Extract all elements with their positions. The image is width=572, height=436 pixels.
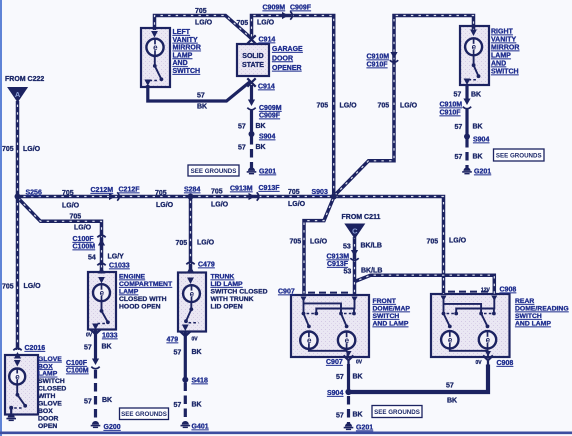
svg-text:FROM C222: FROM C222	[5, 76, 44, 83]
svg-text:BK: BK	[471, 92, 481, 99]
component box right vanity mirror lamp and switch	[460, 26, 489, 85]
lamp left vanity	[146, 39, 163, 56]
svg-text:57: 57	[84, 399, 92, 406]
svg-text:BK: BK	[102, 344, 112, 351]
svg-text:DOOR: DOOR	[38, 415, 58, 422]
svg-text:C100F: C100F	[73, 236, 95, 243]
wire rear dome ground 57 BK to S904	[350, 365, 488, 393]
connector C909M/C909F inline	[282, 11, 292, 19]
arrow into engine lamp	[98, 277, 105, 284]
ground G201 right	[462, 167, 472, 173]
svg-text:ENGINE: ENGINE	[119, 274, 146, 281]
svg-text:BK: BK	[256, 144, 266, 151]
splice S903	[331, 194, 337, 200]
lamp right vanity	[465, 38, 482, 55]
wire rear dome right stub	[493, 309, 495, 314]
svg-text:BK/LB: BK/LB	[361, 268, 382, 275]
svg-text:SEE GROUNDS: SEE GROUNDS	[121, 411, 167, 418]
svg-text:SWITCH: SWITCH	[38, 378, 65, 385]
wire right S904 to G201 dashed	[465, 139, 468, 168]
svg-text:C910F: C910F	[367, 62, 389, 69]
svg-text:C909F: C909F	[290, 5, 312, 12]
svg-text:C913F: C913F	[327, 261, 349, 268]
svg-text:CLOSED WITH: CLOSED WITH	[119, 296, 167, 303]
svg-text:LG/O: LG/O	[74, 225, 92, 232]
svg-text:479: 479	[167, 337, 179, 344]
svg-text:C212F: C212F	[119, 187, 141, 194]
svg-text:G201: G201	[259, 169, 276, 176]
svg-text:e: e	[100, 289, 105, 298]
switch front dome right	[339, 312, 352, 329]
lamp front dome right	[338, 332, 355, 349]
contact rear dome B	[454, 312, 458, 316]
svg-text:SOLID: SOLID	[242, 53, 263, 60]
arrow exit left vanity	[144, 80, 151, 87]
svg-text:FROM C211: FROM C211	[342, 214, 381, 221]
ground G201 left	[247, 167, 257, 173]
svg-text:705: 705	[2, 284, 14, 291]
component box front dome/map switch and lamp	[291, 295, 369, 357]
arrow exit rear dome	[485, 351, 491, 357]
svg-text:OPENER: OPENER	[272, 65, 302, 72]
svg-text:e: e	[153, 43, 158, 52]
wire lamp to switch trunk	[190, 302, 192, 308]
svg-text:RIGHT: RIGHT	[491, 29, 514, 36]
switch rear dome left	[442, 312, 455, 329]
svg-text:BK: BK	[197, 104, 207, 111]
svg-text:57: 57	[197, 93, 205, 100]
component box solid state garage door opener	[237, 44, 269, 76]
svg-text:SWITCH: SWITCH	[173, 68, 201, 75]
svg-text:e: e	[15, 372, 20, 381]
svg-text:54: 54	[88, 255, 96, 262]
svg-text:705: 705	[70, 214, 82, 221]
contact rear dome D	[492, 312, 496, 316]
wire from C211 drop 53 BK/LB	[353, 237, 357, 295]
svg-text:BOX: BOX	[38, 363, 53, 370]
wire front dome crossbar upper	[304, 303, 342, 313]
svg-text:BK: BK	[353, 374, 363, 381]
svg-text:OPEN: OPEN	[38, 423, 57, 430]
wire S903 drop to front dome 705 LG/O	[304, 197, 334, 295]
svg-text:705: 705	[290, 239, 302, 246]
svg-text:AND LAMP: AND LAMP	[373, 321, 409, 328]
connector C100F/C100M on engine ground	[91, 359, 99, 369]
svg-text:705: 705	[195, 8, 207, 15]
svg-text:53: 53	[344, 269, 352, 276]
component box glove box lamp	[5, 355, 38, 415]
connector C2016	[13, 348, 21, 358]
svg-text:C212M: C212M	[91, 187, 114, 194]
svg-text:S903: S903	[312, 189, 328, 196]
svg-text:12V: 12V	[481, 288, 491, 294]
svg-text:LG/O: LG/O	[211, 202, 229, 209]
svg-text:C909M: C909M	[259, 105, 282, 112]
svg-text:1033: 1033	[102, 333, 118, 340]
wire front dome left branch	[303, 300, 305, 314]
svg-text:G201: G201	[356, 425, 373, 432]
connector C914 top	[247, 35, 255, 43]
splice S418	[182, 377, 188, 383]
svg-text:C909M: C909M	[263, 5, 286, 12]
svg-text:LAMP: LAMP	[119, 289, 139, 296]
svg-text:WITH TRUNK: WITH TRUNK	[211, 296, 254, 303]
wire C914 to C909 connector 57 BK	[250, 85, 253, 102]
dashed box top rear dome	[448, 291, 490, 293]
connector C910M/C910F on right vanity ground	[463, 99, 471, 109]
wire front dome right stub	[353, 309, 355, 314]
svg-text:705: 705	[2, 146, 14, 153]
lamp trunk lid	[183, 285, 200, 302]
svg-text:FRONT: FRONT	[373, 298, 397, 305]
svg-text:57: 57	[174, 350, 182, 357]
svg-text:LG/O: LG/O	[400, 103, 418, 110]
svg-text:BK: BK	[473, 124, 483, 131]
arrow into rear dome right	[491, 296, 497, 302]
svg-text:C910M: C910M	[440, 102, 463, 109]
svg-text:705: 705	[211, 189, 223, 196]
svg-text:SEE GROUNDS: SEE GROUNDS	[496, 152, 542, 159]
wire rear dome exit	[487, 351, 489, 356]
svg-text:LAMP: LAMP	[38, 371, 58, 378]
svg-text:57: 57	[336, 413, 344, 420]
component box trunk lid lamp	[178, 273, 206, 332]
wire lamp to switch glove box	[16, 385, 18, 394]
svg-text:C907: C907	[326, 359, 343, 366]
wire 53 BK/LB branch to rear dome	[355, 275, 495, 294]
svg-text:C2016: C2016	[25, 345, 46, 352]
ground G200	[91, 421, 101, 427]
svg-text:C908: C908	[500, 287, 517, 294]
see grounds box lower right	[372, 406, 422, 418]
wire main bus S256 to rear dome 705 LG/O	[18, 197, 444, 295]
switch engine hood	[98, 309, 110, 324]
switch rear dome right	[479, 312, 492, 329]
arrow exit trunk	[182, 325, 189, 332]
connector C479	[186, 262, 194, 272]
svg-text:BK: BK	[353, 412, 363, 419]
svg-text:e: e	[448, 336, 453, 345]
wire C910 connector to S904 57 BK	[465, 110, 468, 135]
ground below glove box	[6, 414, 16, 420]
wire S284 drop to trunk lamp 705 LG/O	[189, 197, 193, 273]
svg-text:SWITCH: SWITCH	[515, 313, 542, 320]
svg-text:53: 53	[343, 244, 351, 251]
svg-text:BK/LB: BK/LB	[361, 243, 382, 250]
arrow into trunk lamp	[187, 278, 194, 285]
svg-text:0V: 0V	[356, 360, 363, 366]
svg-text:SWITCH: SWITCH	[373, 313, 400, 320]
wire S903 to right vanity feed 705 LG/O	[335, 16, 474, 196]
svg-text:705: 705	[288, 189, 300, 196]
connector C1033	[97, 263, 105, 273]
svg-text:G201: G201	[474, 169, 491, 176]
svg-text:COMPARTMENT: COMPARTMENT	[119, 281, 173, 288]
see grounds box upper left	[188, 165, 239, 176]
svg-text:705: 705	[427, 239, 439, 246]
svg-text:C1033: C1033	[109, 263, 130, 270]
wire front dome ground C907 to S904 57 BK	[347, 364, 350, 390]
svg-text:C910M: C910M	[367, 54, 390, 61]
svg-text:LG/O: LG/O	[310, 239, 328, 246]
svg-text:LG/O: LG/O	[449, 238, 467, 245]
svg-text:LG/O: LG/O	[156, 202, 174, 209]
lamp front dome left	[300, 332, 317, 349]
svg-text:S904: S904	[473, 137, 489, 144]
svg-text:C914: C914	[259, 37, 276, 44]
wire left vanity feed 705 LG/O	[155, 16, 252, 39]
svg-text:AND: AND	[173, 60, 188, 67]
svg-text:LEFT: LEFT	[173, 29, 191, 36]
wire front dome lamp bottoms	[309, 349, 347, 351]
wire lamp to switch engine	[101, 301, 103, 309]
svg-text:e: e	[345, 336, 350, 345]
svg-text:A: A	[15, 90, 21, 99]
svg-text:GLOVE: GLOVE	[38, 356, 62, 363]
component box rear dome/reading switch and lamp	[431, 294, 510, 357]
connector C910M/C910F on feed	[390, 52, 398, 62]
svg-text:57: 57	[455, 124, 463, 131]
svg-text:S256: S256	[26, 190, 42, 197]
wire rear dome lamp bottoms	[450, 349, 488, 351]
svg-text:0V: 0V	[86, 333, 93, 339]
svg-text:STATE: STATE	[242, 62, 264, 69]
svg-text:REAR: REAR	[515, 298, 534, 305]
svg-text:BK: BK	[447, 398, 457, 405]
svg-text:705: 705	[378, 103, 390, 110]
contact glove box left	[9, 406, 13, 410]
wire left vanity ground 57 BK	[148, 82, 250, 101]
svg-text:G401: G401	[192, 424, 209, 431]
wire glove box to ground	[10, 408, 12, 417]
lamp rear dome left	[441, 331, 458, 348]
switch right vanity	[469, 63, 481, 80]
svg-text:S284: S284	[184, 187, 200, 194]
svg-text:SWITCH: SWITCH	[491, 69, 519, 76]
svg-text:e: e	[307, 336, 312, 345]
svg-text:LAMP: LAMP	[491, 53, 511, 60]
connector C909M/C909F vertical	[247, 100, 255, 110]
svg-text:VANITY: VANITY	[491, 37, 516, 44]
connector C913M/C913F below C211	[350, 250, 358, 260]
wire rear dome right branch	[456, 299, 494, 313]
wire lamp to switch left vanity	[154, 56, 156, 65]
svg-text:57: 57	[238, 124, 246, 131]
svg-text:57: 57	[174, 402, 182, 409]
svg-text:705: 705	[317, 103, 329, 110]
wire front dome exit	[347, 351, 349, 356]
svg-text:GARAGE: GARAGE	[272, 46, 303, 53]
svg-text:C913M: C913M	[230, 186, 253, 193]
svg-text:BOX: BOX	[38, 408, 53, 415]
switch glove box	[14, 393, 27, 408]
switch left vanity	[150, 64, 164, 81]
svg-text:BK: BK	[102, 397, 112, 404]
svg-text:705: 705	[176, 240, 188, 247]
arrow into front dome left	[301, 297, 307, 303]
svg-text:C100M: C100M	[73, 244, 96, 251]
svg-text:AND LAMP: AND LAMP	[515, 321, 551, 328]
arrow into right vanity	[470, 30, 477, 37]
wire rear dome left branch	[443, 299, 445, 314]
svg-text:57: 57	[455, 154, 463, 161]
wire lamp to switch right vanity	[473, 56, 475, 65]
source triangle from C211	[344, 224, 365, 240]
page border left	[0, 0, 2, 436]
svg-text:57: 57	[446, 383, 454, 390]
connector C914 bottom	[247, 78, 255, 86]
svg-text:LG/Y: LG/Y	[108, 254, 125, 261]
svg-text:C907: C907	[278, 289, 295, 296]
svg-text:C913M: C913M	[327, 254, 350, 261]
svg-text:WITH: WITH	[38, 393, 55, 400]
lamp engine compartment	[93, 284, 110, 301]
svg-text:C479: C479	[198, 262, 215, 269]
splice S256	[15, 194, 21, 200]
svg-text:C908: C908	[497, 360, 514, 367]
connector 479 0V	[180, 332, 190, 342]
svg-text:705: 705	[62, 190, 74, 197]
svg-text:DOME/MAP: DOME/MAP	[373, 306, 411, 313]
arrow into left vanity	[151, 31, 158, 38]
splice S904 left	[249, 131, 255, 137]
see grounds box lower left	[120, 408, 169, 420]
lamp rear dome right	[479, 331, 496, 348]
source triangle from C222	[7, 87, 28, 103]
svg-text:MIRROR: MIRROR	[173, 45, 201, 52]
svg-text:CLOSED: CLOSED	[38, 386, 66, 393]
connector 1033 0V	[91, 330, 101, 340]
svg-text:BK: BK	[473, 154, 483, 161]
svg-text:LG/O: LG/O	[195, 20, 213, 27]
wire S418 to G401 dashed	[184, 383, 187, 422]
component box left vanity mirror lamp and switch	[141, 28, 170, 87]
svg-text:57: 57	[336, 374, 344, 381]
splice S904 right	[464, 134, 470, 140]
svg-text:LG/O: LG/O	[197, 240, 215, 247]
svg-text:TRUNK: TRUNK	[211, 274, 235, 281]
arrow exit front dome	[346, 351, 352, 357]
svg-text:AND: AND	[491, 61, 506, 68]
arrow into front dome right	[352, 297, 358, 303]
svg-text:LG/O: LG/O	[24, 283, 42, 290]
svg-text:SEE GROUNDS: SEE GROUNDS	[374, 409, 420, 416]
svg-text:GLOVE: GLOVE	[38, 401, 62, 408]
wire S904 to G201 bottom dashed	[347, 396, 350, 424]
splice S904 bottom	[345, 389, 351, 395]
svg-text:C100M: C100M	[66, 368, 89, 375]
svg-text:G200: G200	[104, 424, 121, 431]
svg-text:SEE GROUNDS: SEE GROUNDS	[191, 168, 237, 175]
svg-text:VANITY: VANITY	[173, 37, 198, 44]
connector C100F/C100M	[97, 235, 105, 245]
svg-text:BK: BK	[256, 123, 266, 130]
svg-text:MIRROR: MIRROR	[491, 45, 519, 52]
svg-text:C100F: C100F	[66, 360, 88, 367]
svg-text:C910F: C910F	[440, 110, 462, 117]
svg-text:LG/O: LG/O	[62, 203, 80, 210]
see grounds box upper right	[494, 149, 545, 161]
arrow into rear dome left	[441, 296, 447, 302]
svg-text:e: e	[472, 43, 477, 52]
splice S284	[188, 194, 194, 200]
contact front dome D	[352, 312, 356, 316]
svg-text:C914: C914	[258, 84, 275, 91]
svg-text:BK: BK	[192, 349, 202, 356]
svg-text:C909F: C909F	[259, 113, 281, 120]
wire trunk lamp ground 57 BK	[184, 332, 187, 378]
svg-text:e: e	[486, 336, 491, 345]
svg-text:HOOD OPEN: HOOD OPEN	[119, 304, 161, 311]
svg-text:LID LAMP: LID LAMP	[211, 281, 244, 288]
connector C212M/C212F inline	[109, 192, 119, 200]
svg-text:705: 705	[237, 20, 249, 27]
switch front dome left	[302, 312, 315, 329]
wire S256 drop to glove box 705 LG/O	[16, 197, 20, 351]
connector C913M/C913F inline	[249, 192, 259, 200]
svg-text:LG/O: LG/O	[257, 20, 275, 27]
wire front dome right branch	[316, 300, 354, 313]
svg-text:S904: S904	[327, 390, 343, 397]
svg-text:0V: 0V	[192, 337, 199, 343]
svg-text:57: 57	[238, 145, 246, 152]
arrow exit engine	[92, 324, 99, 331]
svg-text:57: 57	[454, 92, 462, 99]
ground G401	[181, 421, 191, 427]
ground G201 bottom	[344, 423, 354, 429]
svg-text:C913F: C913F	[259, 185, 281, 192]
wire S256 branch to engine lamp 705 LG/O	[18, 198, 102, 273]
connector C907 0V	[344, 356, 354, 366]
arrow into glove box	[14, 360, 21, 367]
switch trunk lid	[184, 307, 198, 323]
wire engine lamp ground 57 BK	[94, 329, 97, 361]
wire C909 connector to S904 57 BK	[250, 111, 253, 132]
svg-text:LG/O: LG/O	[288, 201, 306, 208]
contact front dome B	[314, 312, 318, 316]
wire S904 to G201 dashed	[250, 136, 253, 168]
wire solid state to C909 to right drop 705 LG/O	[252, 16, 334, 197]
wire rear dome crossbar upper	[444, 304, 482, 313]
svg-text:0V: 0V	[476, 360, 483, 366]
svg-text:LG/O: LG/O	[340, 103, 358, 110]
wire from C222 drop 705 LG/O	[16, 101, 20, 197]
connector C908 0V	[483, 356, 493, 366]
svg-text:LID OPEN: LID OPEN	[211, 304, 243, 311]
svg-text:e: e	[190, 290, 195, 299]
svg-text:LAMP: LAMP	[173, 52, 193, 59]
svg-text:705: 705	[155, 190, 167, 197]
svg-text:57: 57	[84, 345, 92, 352]
page border bottom	[0, 431, 572, 434]
svg-text:C: C	[352, 227, 358, 236]
svg-text:DOOR: DOOR	[272, 55, 293, 62]
arrow exit right vanity	[464, 79, 471, 86]
dashed box top front dome	[308, 292, 350, 294]
svg-text:S418: S418	[192, 378, 208, 385]
svg-text:LG/O: LG/O	[23, 146, 41, 153]
svg-text:DOME/READING: DOME/READING	[515, 306, 569, 313]
svg-text:BK: BK	[192, 402, 202, 409]
component box engine compartment lamp	[88, 272, 116, 330]
lamp glove box	[9, 369, 25, 385]
wire engine ground below C100 dashed	[94, 370, 97, 422]
svg-text:S904: S904	[259, 134, 275, 141]
svg-text:SWITCH CLOSED: SWITCH CLOSED	[211, 289, 268, 296]
wire right vanity ground 57 BK	[465, 84, 468, 101]
